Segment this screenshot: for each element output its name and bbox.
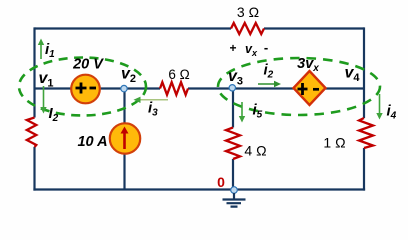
diamond minus sign [313,88,319,91]
svg-text:20 V: 20 V [72,57,104,73]
svg-text:4 Ω: 4 Ω [244,143,266,159]
current arrow I2 (down) [43,86,45,109]
svg-text:i4: i4 [387,103,397,122]
svg-text:-: - [264,40,268,55]
20V plus sign [76,83,87,94]
svg-text:v3: v3 [228,68,243,88]
wire middle v1 to 20V source [35,87,72,89]
current arrow i5 (down) [241,102,243,118]
svg-text:+: + [229,41,236,55]
supernode ellipse right (dashed green) [218,58,380,115]
resistor 3-ohm zigzag [231,23,264,34]
ground symbol [223,193,246,207]
svg-text:10 A: 10 A [77,134,107,150]
wire top edge left of 3-ohm [35,27,232,29]
20V minus sign [90,87,97,90]
svg-text:i1: i1 [45,41,55,60]
svg-text:1 Ω: 1 Ω [323,135,345,151]
node 0 ground dot [231,187,238,194]
svg-text:0: 0 [217,174,225,190]
svg-text:i2: i2 [264,62,274,81]
svg-text:i3: i3 [148,100,158,119]
wire v3 down to 4-ohm [232,89,234,128]
wire 4-ohm to bottom [232,159,234,190]
current arrow i3 (left, pale line) [138,99,168,101]
node v2 dot [121,85,127,91]
wire 6-ohm to diamond [188,87,294,89]
wire diamond to right edge [325,87,364,89]
node v3 dot [229,85,235,91]
resistor 6-ohm zigzag [160,82,188,95]
diamond plus sign [298,83,308,95]
current source 10A circle I1 [110,123,140,153]
wire left edge lower [33,147,35,191]
svg-text:v1: v1 [39,70,54,90]
wire right edge lower [363,148,365,191]
svg-text:vx: vx [245,42,258,58]
svg-text:6 Ω: 6 Ω [168,67,189,82]
current arrow i2 (right) [258,83,277,85]
svg-text:v2: v2 [121,66,136,86]
resistor R-left zigzag [27,118,37,148]
wire right edge upper [363,27,365,118]
wire bottom edge [33,188,365,190]
wire 10A source to bottom [123,153,125,190]
svg-text:i5: i5 [253,102,263,121]
svg-text:I2: I2 [49,105,59,124]
10A arrow up (red) [123,130,126,149]
wire v2 down to 10A source [123,89,125,125]
wire 20V source to 6-ohm [100,87,161,89]
resistor 1-ohm zigzag [359,118,373,148]
wire left edge upper [33,27,35,117]
supernode ellipse left (dashed green) [19,58,146,116]
dependent source 3Vx diamond [294,71,326,105]
voltage source 20V circle U1 [71,75,100,104]
wire top edge right of 3-ohm [264,27,364,29]
current arrow i1 (up) [40,42,42,59]
current arrow i4 (down) [379,94,381,115]
svg-text:3 Ω: 3 Ω [237,4,259,20]
resistor 4-ohm zigzag [226,128,240,160]
